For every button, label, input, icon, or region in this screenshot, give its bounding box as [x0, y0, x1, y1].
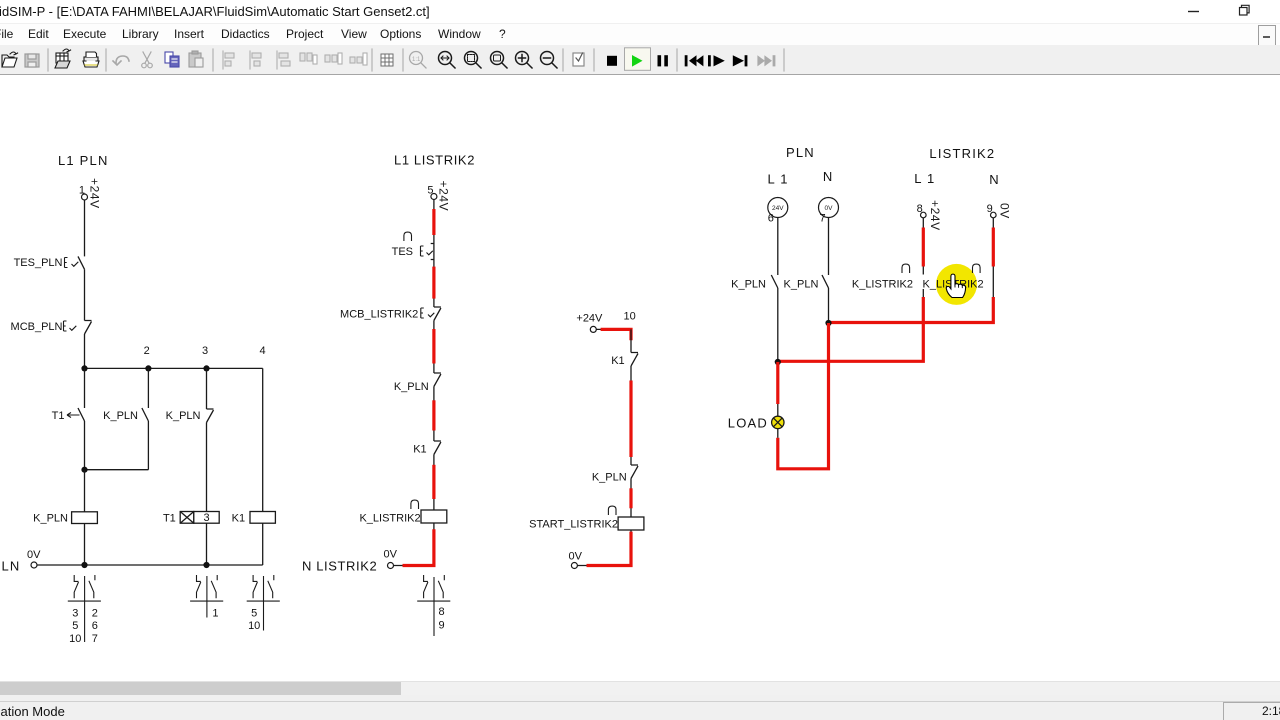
contact reference under K1 [247, 575, 280, 632]
svg-text:4: 4 [259, 345, 265, 357]
check item [573, 53, 584, 66]
window minimize button [1180, 0, 1280, 23]
terminal 9 0V LISTRIK2 N [987, 203, 1012, 219]
svg-text:T1: T1 [163, 513, 176, 525]
rewind [685, 55, 704, 66]
wire K_PLN to K1 contact [433, 387, 435, 442]
wire energized top corner [601, 329, 631, 340]
contact K_PLN (NC, open) mid [394, 373, 441, 393]
grid icon [381, 54, 393, 66]
svg-text:TES: TES [392, 246, 413, 258]
wire energized segment [432, 400, 435, 430]
source 0V PLN N [819, 198, 839, 225]
wire energized segment [992, 228, 995, 267]
junction bus-2 [145, 365, 151, 371]
to end [733, 55, 748, 66]
svg-text:5: 5 [72, 620, 78, 632]
svg-text:+24V: +24V [576, 313, 603, 325]
svg-text:0V: 0V [384, 549, 398, 561]
wire energized segment [629, 381, 632, 458]
wire junction to K_PLN coil [84, 470, 86, 512]
svg-text:K_LISTRIK2: K_LISTRIK2 [359, 513, 420, 525]
svg-text:7: 7 [92, 633, 98, 645]
wire energized bottom corner [587, 532, 632, 566]
wire K_PLN col2 down [147, 421, 149, 470]
terminal 5 +24V [427, 181, 450, 212]
terminal 0V N PLN [0, 549, 41, 574]
contact reference under T1 [190, 575, 223, 620]
wire bus to K_PLN NC contact col3 [206, 368, 208, 409]
wire energized segment [432, 465, 435, 499]
svg-text:+24V: +24V [88, 178, 102, 209]
svg-text:5: 5 [251, 608, 257, 620]
junction bus-1 [81, 365, 87, 371]
svg-text:N PLN: N PLN [0, 559, 21, 574]
wire MCB_PLN to bus node [84, 334, 86, 368]
svg-text:6: 6 [768, 213, 774, 225]
lamp LOAD [728, 416, 784, 431]
wire TES to MCB_LISTRIK2 [433, 260, 435, 308]
source 24V PLN L1 [768, 198, 788, 225]
wire TES_PLN to MCB_PLN [84, 269, 86, 320]
wire T1 coil to 0V rail [206, 523, 208, 565]
svg-text:MCB_PLN: MCB_PLN [11, 321, 63, 333]
junction load node [775, 359, 781, 365]
svg-text:10: 10 [69, 633, 81, 645]
highlight circle (cursor focus) [936, 264, 977, 305]
terminal 0V N LISTRIK2 [302, 549, 434, 574]
svg-text:3: 3 [72, 608, 78, 620]
svg-text:9: 9 [438, 620, 444, 632]
contact K_LISTRIK2 (closed) power L1 [852, 264, 923, 297]
wire energized L1 down and left to load node [778, 297, 924, 361]
printer [83, 52, 99, 67]
wire contact to junction [777, 288, 779, 362]
wire coil to 0V [630, 530, 632, 566]
play button pressed [625, 48, 651, 71]
coil K_PLN [33, 512, 97, 525]
wire K1 to coil K_LISTRIK2 [433, 455, 435, 511]
copy [165, 52, 179, 67]
junction T1-branch [81, 467, 87, 473]
wire T1 contact to junction [84, 421, 86, 470]
svg-text:N: N [989, 172, 1000, 187]
wire coil to 0V rail [433, 523, 435, 566]
svg-text:0V: 0V [825, 205, 834, 212]
wire col3 to T1 coil [206, 423, 208, 512]
zoom fit [439, 52, 456, 69]
svg-text:LOAD: LOAD [728, 416, 768, 431]
wire down to K1 contact [630, 329, 632, 352]
switch TES (closed) [392, 232, 434, 259]
svg-text:N LISTRIK2: N LISTRIK2 [302, 559, 377, 574]
svg-text:L1 LISTRIK2: L1 LISTRIK2 [394, 153, 475, 168]
svg-text:L 1: L 1 [914, 171, 935, 186]
svg-text:K_PLN: K_PLN [103, 410, 138, 422]
save (disabled) [25, 54, 39, 67]
svg-text:N: N [823, 169, 834, 184]
wire energized N down and left to PLN N node [829, 297, 994, 323]
svg-text:PLN: PLN [786, 145, 815, 160]
svg-text:1: 1 [212, 608, 218, 620]
switch MCB_PLN (NC, open) [11, 321, 92, 335]
wire K_PLN coil to 0V rail [84, 524, 86, 566]
undo (disabled) [113, 56, 129, 65]
wire energized segment [922, 228, 925, 267]
svg-text:1:1: 1:1 [412, 57, 421, 63]
svg-text:24V: 24V [772, 205, 784, 212]
hand cursor [946, 274, 965, 297]
wire energized segment [432, 209, 435, 235]
svg-text:L 1: L 1 [768, 172, 789, 187]
wire bus to T1 contact [84, 368, 86, 408]
switch TES_PLN (NO, open) [14, 256, 85, 269]
wire bus col4 to K1 coil [262, 368, 264, 511]
contact K_LISTRIK2 (closed) power N [923, 264, 994, 297]
contact reference under K_PLN [68, 575, 101, 645]
wire contact to junction [828, 288, 830, 323]
wire LISTRIK2 L1 stub [922, 218, 924, 267]
wire MCB to K_PLN contact [433, 321, 435, 374]
wire terminal5 to TES [433, 200, 435, 244]
svg-text:7: 7 [820, 213, 826, 225]
wire K1 coil to 0V rail [262, 523, 264, 565]
contact K_PLN (NC, open) start-rung [592, 465, 638, 484]
pause [658, 55, 668, 66]
svg-text:T1: T1 [52, 410, 65, 422]
wire energized load node to lamp top [776, 362, 779, 404]
svg-text:LISTRIK2: LISTRIK2 [929, 146, 995, 161]
wire terminal1 to TES_PLN [84, 200, 86, 256]
svg-text:6: 6 [92, 620, 98, 632]
contact K1 (NC, open) mid [413, 441, 441, 456]
svg-text:0V: 0V [569, 551, 583, 563]
svg-text:K_PLN: K_PLN [592, 472, 627, 484]
wire energized segment [432, 267, 435, 299]
switch MCB_LISTRIK2 (NC, open) [340, 307, 441, 321]
wire energized segment [629, 488, 632, 508]
wire K1 to K_PLN [630, 366, 632, 465]
junction bus-3 [203, 365, 209, 371]
svg-text:10: 10 [248, 620, 260, 632]
wire 0V rail [37, 564, 263, 566]
separators [48, 49, 784, 71]
svg-text:K_PLN: K_PLN [33, 513, 68, 525]
svg-text:K1: K1 [413, 444, 426, 456]
svg-text:K_PLN: K_PLN [784, 279, 819, 291]
svg-text:K_LISTRIK2: K_LISTRIK2 [852, 279, 913, 291]
zoom out [541, 52, 558, 69]
wire energized segment [432, 329, 435, 364]
svg-text:K_PLN: K_PLN [394, 381, 429, 393]
stop [607, 56, 617, 66]
svg-text:K_PLN: K_PLN [731, 279, 766, 291]
wire PLN N down to contact [828, 218, 830, 276]
svg-text:L1 PLN: L1 PLN [58, 153, 109, 168]
coil K_LISTRIK2 [359, 500, 446, 524]
svg-text:0V: 0V [27, 549, 41, 561]
cut (disabled) [142, 52, 153, 68]
svg-text:START_LISTRIK2: START_LISTRIK2 [529, 519, 618, 531]
contact K_PLN (NO, open) power L1 [731, 275, 778, 291]
svg-text:TES_PLN: TES_PLN [14, 257, 63, 269]
svg-text:+24V: +24V [437, 181, 451, 212]
node rail numbers 2 3 4 [144, 345, 266, 357]
junction PLN N node [825, 320, 831, 326]
wire energized segment with corner [403, 529, 434, 565]
junction rail-1 [81, 562, 87, 568]
svg-text:10: 10 [624, 311, 636, 323]
MDI child minimize button [1258, 25, 1276, 46]
fast forward (disabled) [757, 55, 775, 66]
svg-text:MCB_LISTRIK2: MCB_LISTRIK2 [340, 309, 418, 321]
terminal 0V start-rung [569, 551, 632, 569]
svg-text:+24V: +24V [928, 200, 942, 231]
new window/folder [55, 49, 71, 68]
contact K_PLN (NO, open) col2 [103, 408, 148, 422]
wire bus to K_PLN NO contact col2 [147, 368, 149, 408]
svg-text:K1: K1 [232, 513, 245, 525]
zoom frame [465, 52, 482, 69]
align icons (disabled) [223, 51, 367, 69]
junction rail-2 [203, 562, 209, 568]
svg-text:3: 3 [203, 512, 209, 524]
coil START_LISTRIK2 [529, 506, 644, 530]
svg-text:8: 8 [438, 606, 444, 618]
wire lamp stubs [777, 404, 779, 417]
wire energized from PLN N node down around to lamp bottom [778, 323, 829, 469]
step forward [708, 55, 725, 66]
coil T1 (timer, value 3) [163, 512, 219, 525]
contact K_PLN (NO, open) power N [784, 275, 829, 291]
zoom window [491, 52, 508, 69]
svg-text:K1: K1 [611, 355, 624, 367]
svg-text:3: 3 [202, 345, 208, 357]
paste (disabled) [189, 51, 203, 67]
svg-text:2: 2 [144, 345, 150, 357]
wire PLN L1 down to contact [777, 218, 779, 276]
open folder [2, 52, 18, 67]
terminal 8 +24V LISTRIK2 L1 [917, 200, 942, 231]
coil K1 [232, 512, 276, 525]
svg-text:K_PLN: K_PLN [166, 410, 201, 422]
svg-text:2: 2 [92, 608, 98, 620]
zoom 1:1 (disabled) [410, 52, 427, 69]
contact K_PLN (NC, open) col3 [166, 409, 214, 423]
terminal +24V 10 [576, 311, 635, 333]
wire horizontal bus [85, 367, 263, 369]
contact K1 (NC, open) start-rung [611, 353, 638, 368]
wire LISTRIK2 N stub [992, 218, 994, 267]
contact reference under K_LISTRIK2 [417, 575, 450, 636]
zoom in [516, 52, 533, 69]
wire horizontal T1/K_PLN join [85, 469, 149, 471]
contact T1 (NO timer, open) [52, 408, 85, 422]
svg-text:0V: 0V [997, 203, 1011, 219]
wire K_PLN to coil [630, 479, 632, 518]
terminal 1 +24V [79, 178, 102, 209]
